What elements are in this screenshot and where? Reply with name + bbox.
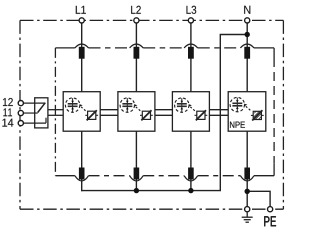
SPD module U1 box <box>63 92 100 132</box>
protected-side loop top wire y=47.9 <box>55 47 274 49</box>
terminal contact L2 top <box>134 47 140 59</box>
changeover lever <box>38 103 46 113</box>
terminal contact L2 bottom <box>134 168 140 180</box>
terminal L3 <box>188 18 193 23</box>
label 12 <box>3 98 13 106</box>
terminal contact N top <box>244 47 250 59</box>
wire L3 drop from terminal to module <box>190 24 192 92</box>
terminal contact L1 bottom <box>79 168 85 180</box>
protected-side loop bottom wire y=175.7 <box>55 175 274 177</box>
disconnector symbol module U2 <box>140 110 153 120</box>
SPD module U4 box (N-PE) <box>228 92 266 132</box>
hop arc over L3 top <box>184 44 198 48</box>
terminal N <box>245 18 250 23</box>
hop arc under L3 bottom <box>184 176 198 181</box>
label L2 <box>131 6 141 14</box>
terminal contact L3 bottom <box>188 168 194 180</box>
remote signalling rail lower <box>48 114 228 116</box>
wire L3 module bottom <box>190 131 192 190</box>
spark gap symbol module U3 <box>175 98 195 112</box>
terminal contact N bottom <box>244 168 250 180</box>
spark gap symbol module U1 <box>65 98 85 112</box>
junction node N top <box>245 32 250 37</box>
ground symbol <box>242 212 253 222</box>
remote signalling contact box S1 <box>35 98 48 128</box>
terminal contact L1 top <box>79 47 85 59</box>
wire N drop from terminal to module <box>246 24 248 92</box>
hop arc under N bottom <box>240 176 254 181</box>
terminal PE <box>268 207 273 212</box>
label PE <box>264 216 276 226</box>
SPD module U3 box <box>172 92 209 132</box>
terminal 12 <box>18 101 23 106</box>
hop arc over N top <box>240 44 254 48</box>
hop arc under L1 bottom <box>75 176 89 181</box>
label 14 <box>2 119 13 127</box>
label L1 <box>76 6 86 14</box>
spark gap symbol module U2 <box>120 98 140 112</box>
wire L1 module bottom <box>81 131 83 191</box>
junction node L2 bottom <box>134 188 139 193</box>
wire L1 drop from terminal to module <box>81 24 83 92</box>
label L3 <box>187 6 197 14</box>
disconnector symbol module U1 <box>85 110 98 120</box>
terminal L2 <box>134 18 139 23</box>
label NPE <box>230 122 245 128</box>
junction node L3 bottom <box>188 188 193 193</box>
contact line 11 <box>24 112 38 114</box>
terminal 14 <box>18 121 23 126</box>
spark gap symbol module U4 <box>230 97 250 111</box>
contact line 14 <box>24 122 46 124</box>
enclosure border top <box>20 19 283 21</box>
enclosure border bottom <box>20 208 283 210</box>
wire L2 drop from terminal to module <box>135 24 137 92</box>
enclosure border right <box>282 20 284 209</box>
SPD module U2 box <box>118 92 155 132</box>
wire L2 module bottom <box>135 131 137 190</box>
wire N-PE link to PE terminal <box>247 191 270 206</box>
terminal 11 <box>18 110 23 115</box>
wire N module bottom to earth terminal <box>246 131 248 206</box>
protected-side loop right wire x=274.1 <box>273 48 275 58</box>
terminal contact L3 top <box>188 47 194 59</box>
earth terminal <box>245 207 250 212</box>
enclosure border left <box>19 20 21 209</box>
protected-side loop left wire x=55.4 <box>54 48 56 176</box>
wire N branch to L-module common bus <box>82 35 248 191</box>
N-PE spark gap symbol module U4 <box>251 110 264 120</box>
terminal L1 <box>79 18 84 23</box>
hop arc under L2 bottom <box>130 176 144 181</box>
junction node N bottom <box>245 189 250 194</box>
remote signalling rail upper <box>48 109 228 111</box>
hop arc over L2 top <box>130 44 144 48</box>
contact line 12 <box>24 102 46 104</box>
disconnector symbol module U3 <box>195 110 208 120</box>
contact 14 tick <box>45 118 47 123</box>
hop arc over L1 top <box>75 44 89 48</box>
label 11 <box>3 108 12 116</box>
label N <box>244 6 250 14</box>
